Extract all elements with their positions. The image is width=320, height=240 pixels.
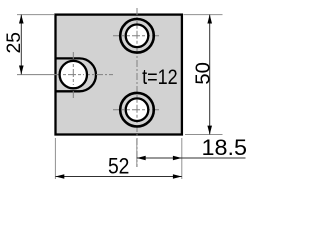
svg-text:18.5: 18.5 (202, 135, 248, 160)
svg-text:t=12: t=12 (142, 66, 178, 89)
svg-text:52: 52 (108, 154, 130, 179)
svg-text:50: 50 (192, 62, 215, 85)
svg-text:25: 25 (3, 32, 25, 54)
